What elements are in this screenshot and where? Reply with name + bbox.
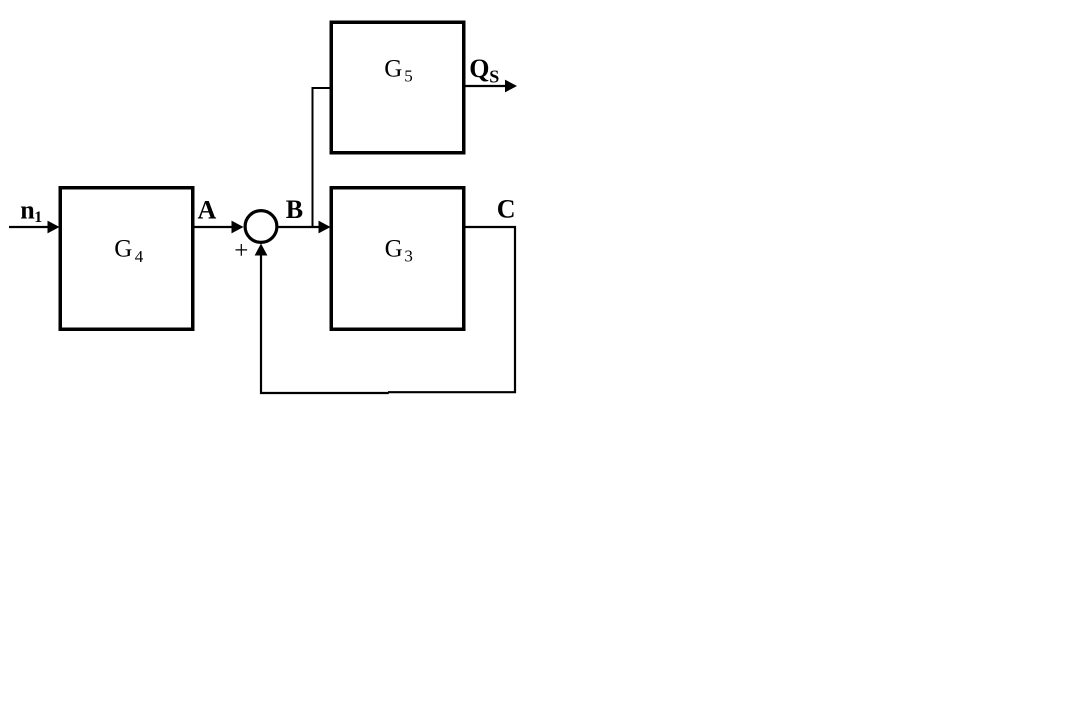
- svg-text:A: A: [198, 195, 217, 224]
- svg-text:+: +: [234, 237, 248, 264]
- svg-text:B: B: [286, 195, 303, 224]
- svg-text:C: C: [497, 195, 516, 224]
